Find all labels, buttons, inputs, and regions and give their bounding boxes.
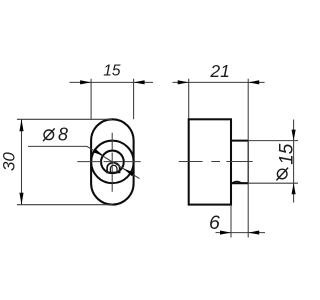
- diameter 15 bottom arrow: [292, 183, 296, 194]
- dimension 21 extension lines: [189, 79, 249, 141]
- dimension 15 extension lines: [91, 79, 134, 120]
- dimension 30 extension lines: [17, 119, 113, 204]
- side view fillet arc detail: [232, 181, 242, 183]
- diameter 8 symbol: [44, 130, 54, 140]
- diameter 15 extension lines: [248, 141, 298, 184]
- keyhole inner slot: [110, 165, 117, 172]
- dimension 21 line and tails: [173, 81, 265, 83]
- front view circle Ø8: [101, 151, 124, 174]
- dimension 30 top arrow: [19, 119, 23, 131]
- svg-text:15: 15: [103, 63, 121, 80]
- dimension 6 right arrow: [248, 231, 259, 235]
- diameter 8 lower arrow: [123, 168, 134, 176]
- front view vertical centerline: [111, 133, 113, 192]
- svg-text:8: 8: [58, 124, 68, 144]
- diameter 8 leader line: [28, 146, 140, 178]
- diameter 15 symbol: [277, 169, 287, 179]
- dimension 15 line and tails: [70, 81, 154, 83]
- svg-text:30: 30: [0, 152, 19, 171]
- dimension 6 extension lines: [231, 183, 248, 237]
- dimension 21 left arrow: [178, 80, 189, 84]
- dimension 15 right arrow: [134, 80, 145, 84]
- diameter 15 top arrow: [292, 130, 296, 141]
- svg-text:6: 6: [209, 212, 220, 234]
- dimension 15 left arrow: [80, 80, 91, 84]
- keyhole outer dome: [107, 163, 120, 173]
- side view body rectangle: [189, 119, 231, 204]
- svg-text:15: 15: [276, 143, 297, 165]
- dimension 6 left arrow: [220, 231, 231, 235]
- front view circle Ø15 collar: [91, 141, 133, 184]
- dimension 21 right arrow: [248, 80, 259, 84]
- svg-text:21: 21: [209, 61, 229, 81]
- diameter 8 upper arrow: [93, 149, 104, 156]
- side view cylinder rectangle: [231, 141, 248, 184]
- dimension 30 bottom arrow: [19, 193, 23, 205]
- dimension 6 line and tails: [216, 232, 266, 234]
- diameter 15 dimension line: [293, 120, 295, 203]
- front view obround body 15x30: [91, 119, 134, 204]
- dimension 30 line: [21, 119, 23, 204]
- side view horizontal centerline: [179, 161, 253, 163]
- side view cylinder right edge: [247, 141, 249, 184]
- front view horizontal centerline: [77, 161, 140, 163]
